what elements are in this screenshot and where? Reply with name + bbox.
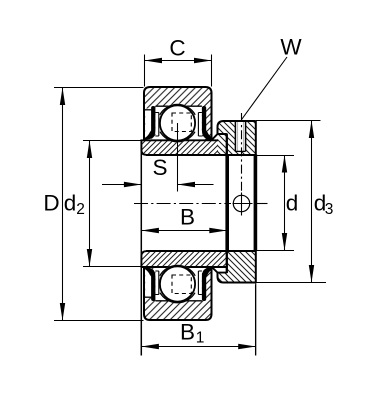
inner ring upper band (hatched) <box>141 140 218 155</box>
dimension B <box>141 205 226 234</box>
seal upper left <box>145 106 156 140</box>
svg-text:d: d <box>64 191 77 216</box>
eccentric locking collar upper section (hatched) <box>218 120 256 155</box>
seal upper right <box>202 106 213 140</box>
outer ring lower section (hatched) <box>144 267 212 321</box>
svg-text:W: W <box>280 35 302 60</box>
ball lower raceway gap <box>158 265 197 304</box>
eccentric locking collar lower section (hatched) <box>218 251 256 283</box>
bore line top <box>146 154 294 157</box>
raceway shoulder lines upper <box>198 113 202 137</box>
outer ring lower outline <box>144 267 212 320</box>
outer ring upper section (hatched) <box>144 87 212 141</box>
svg-text:1: 1 <box>196 330 205 347</box>
inner ring left face line <box>140 140 142 355</box>
inner ring boss step upper <box>206 134 227 156</box>
svg-text:C: C <box>169 36 185 61</box>
dimension d <box>282 155 298 251</box>
collar right face line <box>254 121 256 356</box>
dimension d3 <box>256 121 334 283</box>
seal lower left <box>145 268 156 302</box>
inner ring lower band (hatched) <box>141 251 226 267</box>
ball upper raceway gap <box>158 104 197 143</box>
raceway shoulder lines lower <box>198 271 202 295</box>
dimension C <box>145 36 212 87</box>
svg-text:B: B <box>180 205 195 230</box>
ball lower <box>160 266 195 301</box>
svg-text:B: B <box>180 320 195 345</box>
svg-text:2: 2 <box>76 201 85 218</box>
dimension d2 <box>64 141 141 267</box>
svg-text:S: S <box>152 155 167 180</box>
main centerline <box>134 203 231 205</box>
bore line bottom <box>146 250 294 253</box>
svg-text:D: D <box>43 191 59 216</box>
dimension D <box>43 88 143 321</box>
svg-text:3: 3 <box>325 201 334 218</box>
inner ring boss step lower <box>206 251 227 273</box>
dimension W with leader <box>242 35 303 120</box>
inner ring right face thick line through bore <box>225 155 229 252</box>
seal lower right <box>202 268 213 302</box>
svg-text:d: d <box>286 191 299 216</box>
collar slot centerline <box>241 113 243 192</box>
ball upper <box>160 105 195 140</box>
dimension S <box>102 123 214 192</box>
collar cross-drilled hole <box>233 195 249 211</box>
dimension B1 <box>141 285 255 356</box>
outer ring upper outline <box>144 87 212 140</box>
